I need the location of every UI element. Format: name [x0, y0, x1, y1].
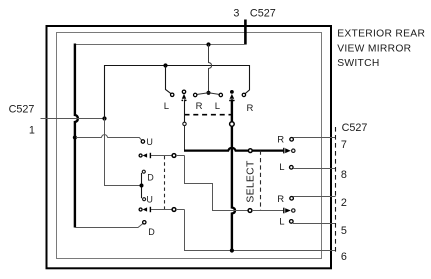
svg-text:R: R — [246, 103, 253, 114]
contact R of switch B — [242, 93, 245, 96]
wire drop to L contact of switch A — [166, 66, 171, 94]
contact D (bottom) — [143, 221, 146, 224]
select pole 2 arm — [252, 210, 284, 212]
svg-text:7: 7 — [341, 139, 347, 151]
contact R mirror 2 — [290, 197, 294, 201]
wire select pole 1 feed (thick, hops up over pole B stem) — [184, 148, 283, 151]
svg-text:C527: C527 — [342, 122, 368, 134]
svg-text:8: 8 — [341, 169, 347, 181]
left/right linkage dashed — [185, 114, 232, 116]
svg-text:R: R — [277, 135, 284, 146]
svg-text:L: L — [279, 162, 284, 173]
connector C527 dashed line right — [335, 127, 337, 253]
svg-text:C527: C527 — [250, 8, 276, 20]
row 1 switch (up/down pole 1) — [139, 153, 184, 158]
svg-text:6: 6 — [341, 251, 347, 263]
svg-text:D: D — [148, 227, 155, 237]
wire staircase to select pole 2 — [185, 156, 249, 211]
switch box inner border — [57, 33, 322, 259]
svg-text:L: L — [279, 217, 284, 228]
wire pin 5 — [293, 223, 336, 225]
contact R of switch A — [194, 93, 197, 96]
wire D contact feed (bottom) — [75, 223, 143, 227]
contact U (upper) — [141, 140, 144, 143]
svg-text:R: R — [196, 101, 203, 112]
contact L mirror 1 — [290, 166, 294, 170]
wire to R contact switch A — [196, 93, 208, 95]
svg-text:U: U — [146, 137, 153, 147]
svg-text:SELECT: SELECT — [245, 160, 256, 203]
contact L of switch A — [171, 93, 174, 96]
svg-text:EXTERIOR REAR: EXTERIOR REAR — [337, 29, 425, 40]
wire thick left vertical (hops right over pin1 wire) — [75, 44, 78, 228]
wire riser up and over to R contact of switch B — [105, 66, 250, 119]
up/down linkage dashed — [164, 156, 166, 209]
node junction top bus / drop to LR switches — [206, 42, 210, 46]
svg-text:C527: C527 — [9, 104, 35, 116]
select pole 2 pivot — [248, 209, 252, 213]
wire pin 8 — [293, 168, 336, 170]
switch pole A (left/right axis) — [181, 90, 186, 151]
svg-text:5: 5 — [341, 225, 347, 237]
wire pin 1 entry — [41, 118, 104, 120]
svg-text:1: 1 — [29, 125, 35, 137]
svg-text:VIEW MIRROR: VIEW MIRROR — [337, 43, 411, 54]
svg-text:SWITCH: SWITCH — [337, 58, 379, 69]
wire to L contact switch B — [209, 93, 220, 95]
svg-text:D: D — [147, 173, 154, 183]
contact R mirror 1 — [290, 138, 294, 142]
wire U feed (hops up over riser) — [76, 135, 142, 141]
svg-text:U: U — [146, 194, 153, 204]
node center feed junction — [206, 91, 210, 95]
wire pin 3 feed (thick stub) — [244, 20, 247, 45]
select pole 1 arrow — [283, 148, 285, 154]
svg-text:L: L — [215, 101, 220, 112]
node junction pole B stem on bottom bus — [230, 248, 234, 252]
wire drop from top bus to center junction (hops right over riser wire) — [209, 45, 212, 93]
node junction feeding L contact of switch A — [163, 63, 167, 67]
node junction bar feed — [140, 184, 144, 188]
node junction pin1 wire / vertical riser — [102, 116, 106, 120]
wire top horizontal bus — [75, 44, 246, 46]
wire riser down to D/U bar — [105, 119, 141, 186]
svg-text:2: 2 — [341, 197, 347, 209]
svg-text:R: R — [277, 194, 284, 205]
wire pin 2 — [293, 196, 336, 198]
D/U bar contacts — [140, 170, 155, 204]
row 2 switch (up/down pole 2) — [139, 207, 184, 212]
switch box outer border — [47, 26, 332, 268]
svg-text:3: 3 — [233, 8, 239, 20]
select pole 1 pivot — [248, 149, 252, 153]
svg-text:L: L — [164, 101, 169, 112]
wire pin 7 — [293, 137, 336, 139]
select linkage dashed — [260, 151, 262, 211]
contact L mirror 2 — [290, 220, 294, 224]
switch pole B (thick active path) — [229, 90, 235, 251]
wire row2 arm down to bottom bus, out to pin 6 — [185, 210, 336, 251]
contact L of switch B — [219, 93, 222, 96]
node junction on thick line feeding U contact — [73, 135, 77, 139]
